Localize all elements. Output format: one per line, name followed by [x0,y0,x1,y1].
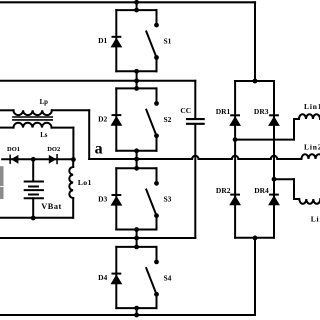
svg-text:D2: D2 [98,115,107,124]
svg-text:DO1: DO1 [7,146,20,153]
svg-text:CC: CC [180,106,191,115]
svg-text:DR2: DR2 [216,186,231,195]
svg-text:VBat: VBat [41,202,62,211]
svg-text:D3: D3 [98,194,107,203]
svg-text:D4: D4 [98,273,107,282]
svg-text:Lp: Lp [40,99,49,106]
svg-text:Lin1: Lin1 [304,102,320,111]
svg-text:Lin3: Lin3 [311,215,320,224]
svg-text:S1: S1 [164,37,172,46]
svg-text:DR3: DR3 [254,107,269,116]
svg-text:Lin2: Lin2 [304,142,320,151]
svg-text:DR4: DR4 [254,186,269,195]
svg-text:Ls: Ls [40,132,48,139]
svg-text:a: a [95,141,103,158]
svg-text:D1: D1 [98,36,107,45]
svg-text:S4: S4 [164,273,172,282]
svg-text:Lo1: Lo1 [78,178,92,187]
svg-text:DR1: DR1 [216,107,231,116]
svg-text:S3: S3 [164,195,172,204]
svg-text:S2: S2 [164,115,172,124]
svg-text:DO2: DO2 [47,146,60,153]
